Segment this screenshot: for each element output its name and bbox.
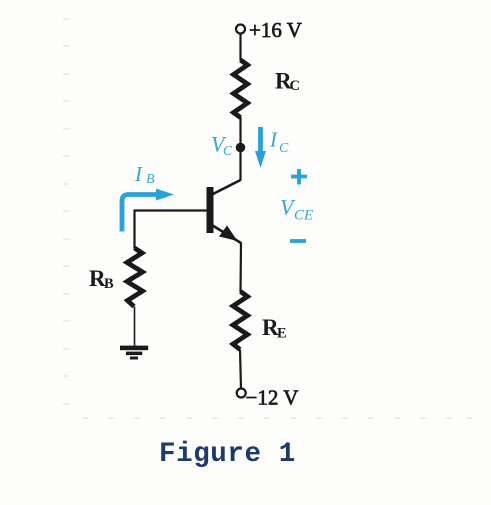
label RB [89, 266, 114, 292]
wire supply to RC [239, 34, 241, 61]
resistor RC [234, 60, 248, 118]
wire RB to ground [134, 307, 136, 346]
label +16 V [249, 18, 302, 42]
terminal +16V [236, 25, 245, 34]
label VC [211, 132, 233, 159]
current arrow IB [122, 189, 174, 232]
svg-text:CE: CE [294, 208, 313, 224]
label VCE [280, 195, 313, 224]
caption Figure 1 [159, 439, 296, 470]
minus sign VCE [290, 239, 306, 243]
wire RE to terminal [240, 350, 241, 389]
svg-text:+16 V: +16 V [249, 18, 302, 42]
plus sign VCE [291, 169, 307, 185]
svg-text:E: E [277, 326, 287, 342]
terminal -12V [237, 389, 246, 398]
svg-text:C: C [279, 141, 289, 156]
current arrow IC [255, 127, 266, 168]
node VC dot [236, 143, 246, 153]
base wire [135, 209, 207, 211]
wire RC to collector [239, 117, 241, 181]
svg-text:C: C [290, 78, 300, 94]
label -12 V [246, 386, 299, 410]
svg-text:I: I [269, 128, 278, 152]
resistor RB [127, 248, 143, 307]
ground [120, 346, 148, 360]
label RE [262, 315, 287, 342]
transistor Q1 base bar [207, 187, 214, 233]
wire emitter to RE [239, 243, 242, 293]
resistor RE [233, 292, 248, 350]
transistor Q1 emitter arrow [219, 226, 238, 242]
transistor Q1 emitter lead [211, 225, 241, 244]
wire base to RB [133, 210, 135, 249]
svg-text:B: B [146, 172, 155, 187]
transistor Q1 collector lead [211, 180, 241, 195]
label IC [269, 128, 289, 157]
svg-text:C: C [223, 143, 233, 158]
label RC [275, 69, 300, 95]
svg-text:B: B [104, 276, 114, 292]
svg-text:I: I [134, 162, 143, 186]
svg-text:−12 V: −12 V [246, 386, 299, 410]
label IB [134, 162, 155, 187]
svg-text:Figure 1: Figure 1 [159, 439, 296, 470]
